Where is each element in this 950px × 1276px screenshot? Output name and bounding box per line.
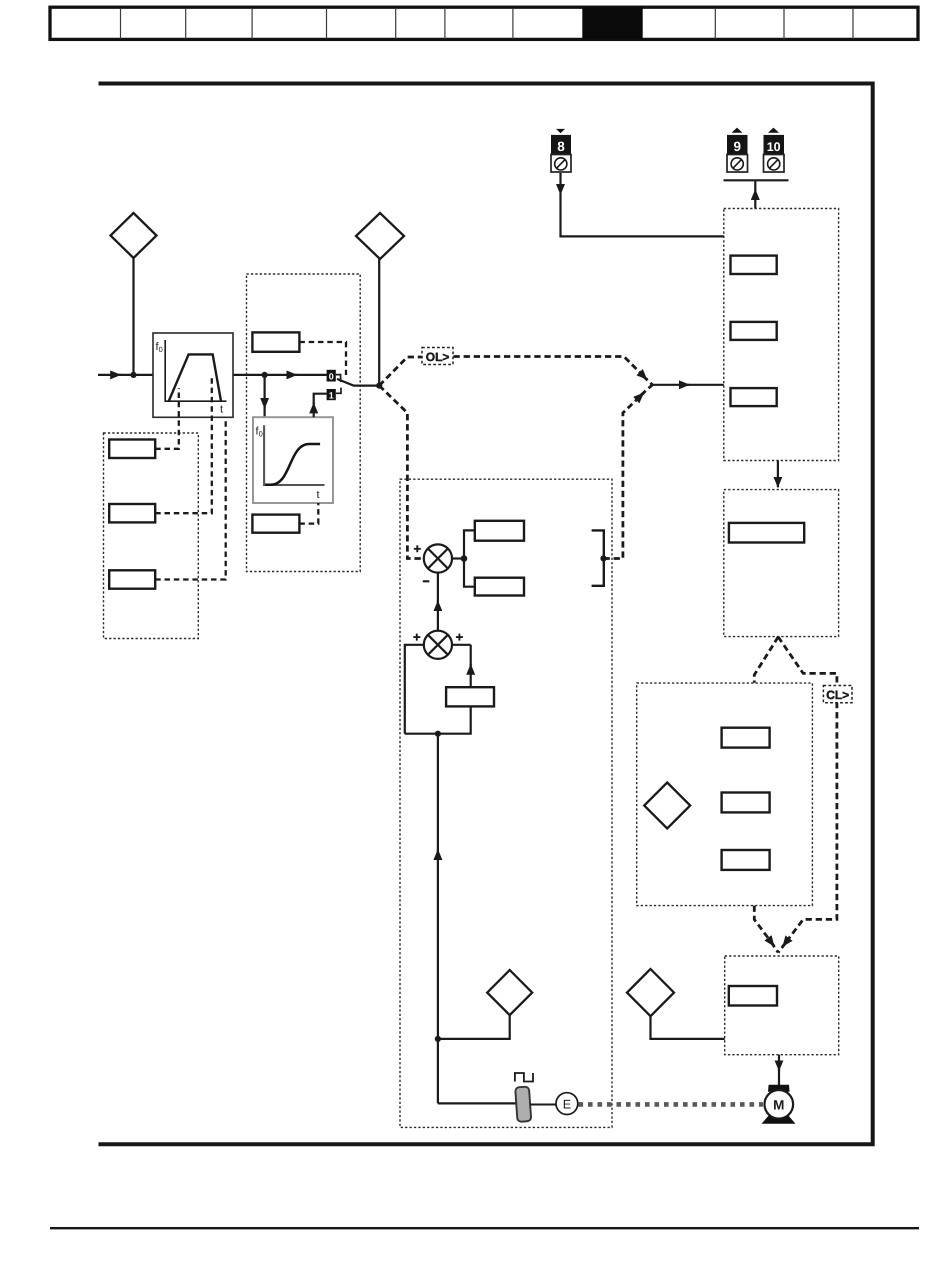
central speed loop group box <box>400 479 612 1127</box>
parameter rect R4 <box>729 986 777 1006</box>
terminal 8 <box>551 129 571 172</box>
terminal 9/10 bus bar <box>724 179 789 181</box>
summing junction 1 <box>414 544 452 581</box>
footer rule <box>50 1227 919 1229</box>
dashed link L2 to ramp block <box>155 375 212 514</box>
parameter rect R2 <box>729 523 804 543</box>
wire: disc to E <box>530 1104 557 1106</box>
dashed link M2 to S ramp block <box>299 503 318 524</box>
node: main line branch to S ramp <box>262 372 268 378</box>
dashed OL path label to merge point <box>454 357 648 380</box>
wire: branch up to C1 <box>464 530 475 558</box>
wire: branch down to C2 <box>464 559 475 587</box>
parameter rect L1 <box>109 440 155 459</box>
switch lever wire <box>337 379 379 386</box>
encoder disc <box>515 1087 531 1122</box>
CL> label <box>823 686 852 703</box>
current control group box (bottom right) <box>725 956 839 1055</box>
wire: sum2 left input loop <box>405 645 424 734</box>
dashed from box3 bottom to box4 <box>754 906 774 947</box>
parameter rect C3 <box>446 687 494 706</box>
encoder E <box>556 1093 578 1115</box>
dashed OL path to label <box>379 357 421 386</box>
ramp (f0 trapezoid) block <box>153 333 233 417</box>
node: post switch junction <box>376 383 382 389</box>
wire: diamond4 to box4 <box>651 1016 725 1039</box>
dashed split below box2 (left branch into box3) <box>754 637 778 683</box>
summing junction 2 <box>413 631 463 659</box>
parameter rect M2 <box>252 515 299 533</box>
dashed link M1 to switch <box>299 342 346 375</box>
diamond parameter (top left) <box>111 213 157 258</box>
wire: sum2 up into sum1 <box>437 601 439 631</box>
svg-text:0: 0 <box>329 371 334 381</box>
parameter rect L3 <box>109 570 155 588</box>
svg-text:8: 8 <box>557 139 565 154</box>
left parameter group box <box>104 433 199 639</box>
wire: speed feedback vertical <box>437 850 439 1104</box>
diamond parameter (in box3) <box>644 783 690 829</box>
parameter rect L2 <box>109 504 155 522</box>
wire: arrow up into 9/10 bar <box>754 190 756 209</box>
dashed CL return path down left side <box>379 386 422 559</box>
diagram frame (open left) <box>99 84 873 1145</box>
pulse icon <box>515 1073 533 1082</box>
switch contact 0 <box>327 370 341 382</box>
parameter rect R1b <box>731 322 777 340</box>
terminal 10 <box>764 128 785 172</box>
wire: diamond1 to main line <box>132 258 134 375</box>
node: sum1 output branch <box>461 555 468 562</box>
motor control group box (right, third) <box>637 683 813 906</box>
wire: diamond2 down to post-switch node <box>378 259 380 386</box>
svg-text:t: t <box>317 489 320 501</box>
node: main line / diamond1 <box>130 372 136 378</box>
reference group box (top right) <box>724 209 839 461</box>
dashed link L3 to ramp block <box>155 418 226 580</box>
wire: merge point into pre-ramp reference box <box>652 384 689 386</box>
header table <box>50 7 918 40</box>
node: bracket / CL path <box>600 555 606 561</box>
parameter rect R1a <box>731 256 777 274</box>
middle group box (ramp select / S ramp) <box>247 274 361 572</box>
svg-text:10: 10 <box>767 140 781 154</box>
node: diamond5 joins feedback <box>435 1036 441 1042</box>
svg-text:M: M <box>773 1097 784 1112</box>
output bracket <box>592 530 604 585</box>
dashed split below box2 (right branch to CL label) <box>778 637 837 686</box>
wire: C3 bottom loop to feedback node <box>405 706 471 733</box>
speed reference group box (right, second) <box>724 490 839 637</box>
svg-text:E: E <box>563 1097 571 1111</box>
parameter rect R3c <box>722 850 770 870</box>
parameter rect R3a <box>722 728 770 748</box>
parameter rect C1 <box>475 521 524 541</box>
wire: S ramp output up to switch position 1 <box>313 403 315 417</box>
wire: diamond5 to feedback line <box>440 1015 510 1039</box>
OL> label <box>422 348 453 365</box>
dotted feedback cable E to M <box>579 1102 764 1107</box>
switch contact 1 <box>327 388 341 401</box>
wire: box4 down to motor <box>778 1055 780 1071</box>
svg-text:t: t <box>220 404 223 416</box>
diamond parameter (left of box4) <box>627 969 674 1016</box>
wire: feedback to encoder shaft <box>438 1102 516 1104</box>
motor M <box>762 1085 796 1124</box>
dashed CL path up to merge point <box>604 393 644 559</box>
svg-text:9: 9 <box>733 139 741 154</box>
wire: branch down into S ramp block <box>264 375 266 409</box>
wire: sum2 right input from C3 <box>452 644 471 646</box>
wire: box1 down to box2 <box>777 461 779 488</box>
parameter rect R3b <box>722 793 770 813</box>
parameter rect M1 <box>252 332 299 351</box>
diamond parameter (above switch) <box>356 213 404 259</box>
wire: terminal 8 down to analog input branch <box>559 173 561 195</box>
wire: sum1 output to branch node <box>452 557 464 559</box>
diamond parameter (central box) <box>487 970 532 1015</box>
S ramp block <box>253 417 333 503</box>
svg-text:1: 1 <box>329 390 334 400</box>
node: feedback branch <box>435 731 441 737</box>
parameter rect C2 <box>475 578 524 596</box>
svg-text:CL>: CL> <box>826 688 849 702</box>
main reference line <box>98 374 121 376</box>
parameter rect R1c <box>731 388 777 406</box>
dashed CL vertical behind label down right side <box>783 702 837 947</box>
dashed link L1 to ramp block <box>155 388 179 449</box>
terminal 9 <box>727 128 748 172</box>
svg-text:OL>: OL> <box>426 350 450 364</box>
